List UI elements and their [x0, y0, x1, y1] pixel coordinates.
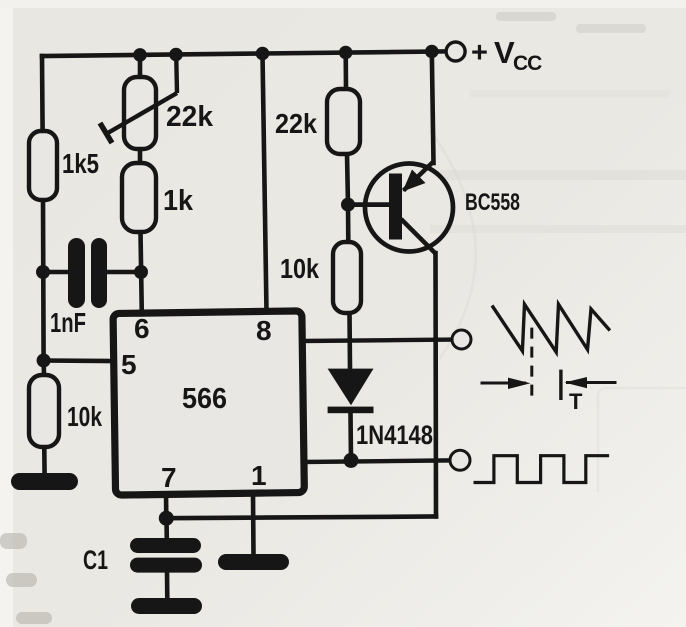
node pin5 junction	[37, 354, 51, 368]
resistor R 1k5	[29, 131, 57, 200]
capacitor 1nF	[68, 238, 107, 308]
wire rail to 22k pot top	[138, 55, 143, 77]
wire top supply rail	[42, 51, 447, 56]
wire rail to transistor emitter	[432, 52, 434, 164]
node cap-right / pin6 junction	[134, 265, 148, 279]
wire collector to pin 7 node	[166, 517, 436, 519]
wire base node to 10k right top	[346, 205, 351, 242]
diode D1 1N4148	[328, 369, 374, 414]
svg-text:1N4148: 1N4148	[356, 420, 433, 450]
square waveform	[474, 456, 610, 483]
svg-text:5: 5	[121, 349, 137, 380]
terminal sawtooth output	[452, 330, 471, 349]
wire pin 7 node to C1	[164, 518, 169, 539]
wire 10k right bottom to diode anode	[347, 313, 352, 369]
terminal square output	[450, 450, 470, 470]
svg-text:T: T	[569, 389, 583, 414]
svg-text:CC: CC	[513, 52, 542, 75]
wire rail to 22k right top	[343, 53, 348, 90]
svg-text:1: 1	[251, 460, 267, 491]
wire IC pin 7 stub	[164, 494, 169, 518]
wire IC pin 1 to ground	[251, 494, 256, 556]
wire 22k right bottom to base node	[347, 154, 348, 205]
ground (left, under 10k)	[11, 473, 78, 490]
node cap-left junction	[36, 265, 50, 279]
wire 1k5 bottom to cap junction to pin5 junction	[41, 200, 46, 361]
resistor 22k (right column)	[327, 89, 360, 154]
wire cap left lead	[43, 270, 68, 275]
arrow right	[565, 377, 617, 388]
svg-text:1k5: 1k5	[62, 148, 99, 179]
wire square output	[303, 460, 450, 462]
sawtooth waveform	[492, 304, 610, 352]
period marker dashed line	[530, 328, 533, 401]
terminal +Vcc	[446, 42, 465, 61]
junction dots on supply rail	[133, 45, 438, 62]
svg-text:10k: 10k	[67, 401, 102, 432]
svg-text:8: 8	[256, 315, 272, 346]
svg-text:V: V	[494, 35, 515, 70]
svg-text:22k: 22k	[166, 101, 214, 133]
svg-text:6: 6	[134, 313, 150, 344]
wire C1 to ground	[165, 572, 170, 599]
wire pin5 horizontal	[44, 358, 115, 363]
svg-text:+: +	[471, 37, 488, 69]
wire 1k bottom to cap-right junction to IC pin 6	[141, 232, 142, 313]
node pin7/collector junction	[159, 511, 174, 526]
wire diode cathode to output node	[348, 413, 353, 460]
svg-text:1k: 1k	[163, 185, 194, 217]
transistor Q1 BC558	[365, 162, 453, 254]
wire rail to IC pin 8	[263, 54, 267, 313]
wire left vertical from rail to 1k5	[40, 56, 45, 131]
period marker solid tick	[559, 370, 562, 400]
svg-text:22k: 22k	[275, 108, 317, 139]
wire pin5 junction down to 10k left top	[41, 361, 46, 376]
capacitor C1	[130, 538, 202, 573]
ground (under C1)	[131, 598, 202, 614]
resistor R 1k	[122, 163, 156, 232]
wire pot bottom to 1k top	[138, 149, 143, 163]
wire base node to transistor base	[348, 202, 389, 207]
resistor 10k (left)	[29, 375, 59, 447]
svg-text:1nF: 1nF	[50, 307, 86, 338]
wire cap right lead	[107, 270, 141, 275]
svg-text:7: 7	[161, 462, 177, 493]
wire transistor collector down	[433, 253, 438, 517]
arrow left	[481, 378, 531, 389]
svg-text:BC558: BC558	[465, 189, 520, 216]
resistor 10k (right column)	[333, 242, 361, 313]
svg-text:C1: C1	[83, 545, 108, 575]
node diode/square-out junction	[344, 453, 359, 468]
ground (under pin 1)	[218, 554, 289, 570]
potentiometer 22k	[100, 55, 214, 150]
wire 10k left bottom to ground	[42, 450, 47, 475]
node base junction	[341, 198, 355, 212]
svg-text:566: 566	[182, 383, 227, 415]
faint scan artifacts	[430, 90, 686, 233]
wire sawtooth output	[303, 340, 452, 341]
IC U1 566	[113, 311, 304, 495]
svg-text:10k: 10k	[280, 253, 319, 284]
